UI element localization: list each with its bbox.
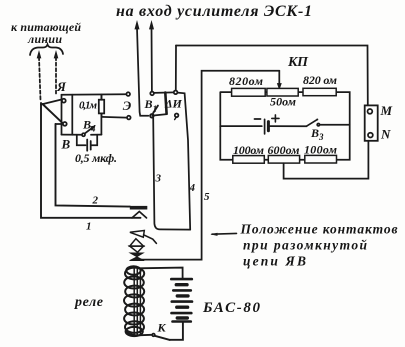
switch В3 blade — [307, 120, 318, 127]
switch box А/В outline — [61, 95, 63, 135]
svg-text:N: N — [380, 127, 391, 142]
node: ΔИ bottom contact — [175, 114, 179, 118]
svg-text:5: 5 — [204, 191, 210, 203]
svg-text:820 ом: 820 ом — [303, 73, 337, 87]
contact triangle on wire 1 — [132, 212, 147, 218]
resistor 0,1М — [99, 100, 104, 114]
svg-text:100ом: 100ом — [233, 143, 264, 157]
wire 5: relay circuit to potentiometer wiper — [134, 71, 280, 260]
annotation arrow to contacts — [212, 232, 237, 235]
battery БАС-80 cells — [171, 278, 192, 281]
wire: ΔИ bottom stub — [152, 114, 166, 115]
svg-text:БАС-80: БАС-80 — [202, 300, 261, 316]
resistor 820 ом (top left) — [232, 88, 266, 96]
bridge network outline — [220, 92, 349, 160]
svg-text:0,5 мкф.: 0,5 мкф. — [75, 151, 117, 165]
wire: resistor bottom to electrode Э lower — [102, 116, 127, 119]
svg-text:при разомкнутой: при разомкнутой — [243, 238, 367, 253]
wire: dashed supply line left — [39, 57, 41, 100]
switch blade to contact Я — [41, 100, 62, 105]
svg-text:4: 4 — [189, 182, 196, 194]
relay armature middle contact — [130, 231, 144, 238]
wire: coil bottom to switch К — [127, 332, 152, 335]
svg-text:КП: КП — [287, 55, 309, 70]
switch В1 top contact — [150, 92, 154, 96]
wire 1: left outer wire down and right — [41, 103, 141, 218]
potentiometer wiper arrow — [278, 71, 280, 85]
svg-text:Я: Я — [56, 79, 67, 94]
wire: battery to switch В3 — [268, 125, 306, 127]
wire: box top edge to electrode Э upper — [62, 93, 126, 96]
node: Э lower terminal circle — [127, 116, 131, 120]
switch blade to contact В — [43, 104, 63, 123]
relay coil loops — [126, 266, 140, 274]
switch В1 bottom contact — [150, 114, 154, 118]
wire: link В1 top to ΔИ top — [154, 91, 174, 94]
svg-text:0,1м: 0,1м — [79, 100, 97, 112]
switch В1 blade — [153, 106, 158, 113]
relay coil core lines — [133, 269, 135, 335]
svg-text:600ом: 600ом — [268, 143, 300, 157]
wire: battery bottom to switch К — [170, 322, 183, 340]
svg-text:цепи ЯВ: цепи ЯВ — [243, 254, 306, 269]
wire: coil top to battery БАС-80 — [138, 268, 183, 278]
node: Э upper terminal circle — [126, 92, 130, 96]
wire: right output arrow to amplifier — [151, 28, 153, 91]
wire 4: ΔИ top to lower contact assembly — [177, 93, 190, 230]
node: contact В circle — [63, 122, 67, 126]
resistor 600 ом (bottom middle) — [268, 156, 299, 164]
relay armature diamond contact — [130, 239, 144, 246]
svg-text:Положение контактов: Положение контактов — [240, 222, 398, 237]
svg-text:М: М — [380, 103, 393, 118]
node: ΔИ top contact — [174, 91, 178, 95]
resistor 100 ом (bottom right) — [305, 155, 337, 163]
switch В4 — [82, 133, 85, 136]
wire 3: В1 bottom down with hook — [153, 118, 190, 230]
contact bar end of wire 2 — [130, 206, 148, 210]
svg-text:50ом: 50ом — [270, 95, 296, 109]
svg-text:3: 3 — [155, 173, 162, 185]
wire: switch В3 to bridge right — [320, 124, 349, 126]
resistor 820 ом (top right) — [303, 88, 336, 95]
wire: bridge bottom tap to N terminal — [284, 141, 369, 179]
svg-text:Э: Э — [123, 98, 132, 113]
svg-text:реле: реле — [74, 295, 103, 310]
wire: long top wire to M terminal — [176, 46, 368, 106]
brace over supply lines — [30, 45, 63, 56]
svg-text:2: 2 — [92, 195, 99, 207]
resistor 50 ом potentiometer — [267, 88, 298, 96]
switch К blade — [155, 336, 170, 340]
battery Б in bridge — [220, 125, 261, 127]
svg-text:В: В — [61, 137, 71, 152]
capacitor 0,5 мкф bypass — [77, 135, 86, 146]
svg-text:100ом: 100ом — [304, 143, 337, 157]
svg-text:820ом: 820ом — [229, 74, 263, 88]
svg-text:1: 1 — [86, 221, 92, 233]
wire: dashed supply line right — [55, 57, 57, 94]
switch ΔИ blade (closed) — [165, 93, 166, 114]
svg-text:на вход усилителя ЭСК-1: на вход усилителя ЭСК-1 — [116, 3, 312, 20]
wire: ΔИ top up to long top wire — [175, 46, 177, 91]
wire 2: inner wire down and right — [56, 124, 131, 207]
svg-text:К: К — [157, 321, 167, 335]
resistor 100 ом (bottom left) — [233, 156, 264, 164]
relay armature bowtie contact — [130, 253, 144, 257]
terminal block M N — [365, 105, 378, 140]
node: contact Я circle — [62, 99, 66, 103]
svg-text:ΔИ: ΔИ — [164, 97, 183, 111]
wire: left output arrow to amplifier — [137, 28, 148, 116]
svg-text:линии: линии — [27, 32, 62, 46]
